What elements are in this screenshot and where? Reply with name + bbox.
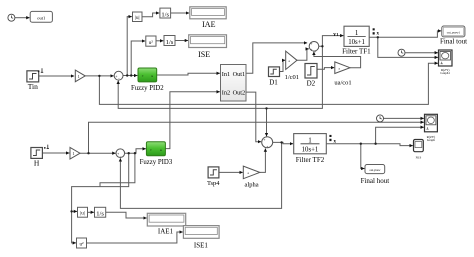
annotation x at TF1 output (373, 28, 380, 36)
svg-text:−: − (119, 155, 121, 159)
abs block |u| (133, 12, 143, 22)
svg-text:Graph1: Graph1 (440, 71, 450, 75)
svg-text:u²: u² (80, 242, 85, 248)
wire H reference to XY graph input2 (89, 122, 424, 153)
scope NS (414, 140, 424, 160)
svg-text:+: + (263, 138, 265, 142)
wire abs to integrator 1/s (142, 13, 159, 17)
node error2 tap 2 (134, 152, 136, 154)
sum S2 (262, 137, 273, 149)
svg-text:In1: In1 (222, 71, 230, 78)
svg-text:1/s: 1/s (96, 211, 104, 218)
svg-text:IAE: IAE (202, 20, 215, 29)
node error tap 2 (130, 74, 132, 76)
wire D2 to gain ua/co1 (317, 68, 334, 70)
display IAE1 (147, 213, 185, 235)
square block u^2 (146, 36, 156, 46)
svg-text:D2: D2 (307, 79, 316, 87)
integrator 1/s (160, 8, 171, 18)
gain K1 (75, 70, 85, 82)
wire integrator to display IAE (171, 12, 190, 14)
wire gain alpha to sum S2 bottom (260, 148, 266, 172)
svg-text:ISE: ISE (198, 50, 210, 59)
subsystem plant In1 Out1 / In2 Out2 (221, 65, 247, 102)
abs block |u| b (78, 207, 88, 217)
svg-text:Filter TF1: Filter TF1 (342, 48, 371, 56)
node hout junction 2 (374, 143, 376, 145)
wire Filter TF1 to Final tout (369, 31, 441, 37)
svg-text:1/s: 1/s (166, 39, 174, 46)
svg-text:10s+1: 10s+1 (348, 39, 365, 46)
svg-text:Out1: Out1 (233, 71, 246, 78)
gain K2 (70, 147, 80, 159)
wire TF1 branch to scope1 input2 (378, 37, 438, 57)
gain ua/co1 (334, 62, 351, 87)
wire gain ua/co1 to sum S3 bottom (314, 52, 361, 68)
svg-text:1/c01: 1/c01 (285, 74, 299, 81)
svg-text:10s+1: 10s+1 (302, 147, 319, 154)
sum S1 (114, 71, 123, 81)
gain alpha (243, 166, 259, 188)
wire Filter TF2 to scope2 (326, 144, 413, 146)
node Y1 junction (321, 45, 323, 47)
sum S3 (309, 42, 319, 54)
svg-text:In2: In2 (222, 89, 230, 96)
wire branch down to Final hout (361, 144, 365, 169)
wire error tap to abs |u| (127, 17, 132, 76)
svg-text:Graph: Graph (427, 138, 435, 142)
svg-text:+: + (314, 49, 316, 53)
svg-text:1: 1 (73, 151, 75, 156)
node Y1 to S2 junction (265, 107, 267, 109)
scope XY Graph (425, 114, 438, 142)
svg-text:x: x (377, 32, 380, 37)
wire square b to display ISE1 (87, 232, 183, 243)
node TF1 output junction (377, 36, 379, 38)
svg-text:Out2: Out2 (233, 89, 246, 96)
node error tap 1 (126, 74, 128, 76)
svg-text:Final hout: Final hout (361, 177, 390, 185)
node S2 output junction (280, 141, 282, 143)
node ref H junction (87, 152, 89, 154)
svg-text:u²: u² (149, 40, 154, 46)
svg-text:>: > (142, 74, 144, 78)
node abs b junction (70, 210, 72, 212)
svg-text:Fuzzy PID3: Fuzzy PID3 (140, 159, 173, 166)
svg-text:Filter TF2: Filter TF2 (296, 156, 325, 164)
wire Tsp4 to gain alpha (219, 171, 243, 173)
step source Tsp4 (207, 167, 220, 187)
display ISE1 (183, 226, 219, 250)
to-workspace Final tout (440, 26, 467, 46)
to-workspace out1 (30, 11, 52, 22)
wire subsystem Out1 to sum S3 (246, 43, 307, 73)
wire H to gain K2 (42, 152, 69, 154)
svg-text:out1: out1 (37, 15, 45, 20)
wire square to integrator 1/s2 (156, 40, 163, 42)
svg-text:1: 1 (308, 136, 312, 144)
wire sum S3 to Filter TF1 (319, 36, 344, 47)
svg-text:+: + (266, 145, 268, 149)
svg-text:ua/co1: ua/co1 (334, 80, 351, 87)
svg-text:Tsp4: Tsp4 (207, 180, 220, 187)
step source Tin (27, 71, 39, 91)
wire error2 tap joining lower rail (100, 153, 135, 186)
step source D1 (269, 67, 280, 87)
step source D2 (305, 64, 317, 88)
wire Fuzzy PID3 up to subsystem In2 (165, 92, 220, 149)
wire integrator2 to display ISE (175, 40, 188, 42)
annotation marker at Tin output (38, 68, 44, 72)
transfer function Filter TF1 (342, 26, 371, 55)
svg-text:1: 1 (78, 74, 80, 79)
node error2 tap 1 (128, 152, 130, 154)
svg-text:−: − (118, 77, 120, 81)
wire error1 tap to square u2b (72, 153, 129, 243)
svg-text:N1S: N1S (416, 155, 422, 159)
clock Clock3 (377, 115, 384, 122)
sum SL (116, 149, 125, 159)
wire Y1 feedback branch to sum S2 top (266, 108, 268, 136)
display IAE (190, 7, 226, 29)
wire sum S1 to Fuzzy PID2 (123, 75, 137, 77)
scope XY Graph1 (439, 50, 453, 75)
svg-text:|u|: |u| (135, 16, 140, 21)
wire gain K1 to sum S1 (85, 75, 114, 77)
svg-text:>: > (150, 148, 152, 152)
svg-text:alpha: alpha (245, 181, 259, 188)
clock Clock2 (398, 49, 405, 56)
wire hout feedback to sum SL bottom (120, 142, 281, 208)
svg-text:H: H (34, 159, 40, 168)
svg-text:+: + (310, 48, 312, 52)
step source H (31, 148, 43, 168)
wire Tin to gain K1 (39, 75, 74, 77)
wire sum S2 to Filter TF2 (273, 142, 294, 143)
wire Fuzzy PID2 to subsystem In1 (157, 73, 220, 75)
wire gain 1/c01 to sum S3 (297, 49, 309, 60)
wire error tap to square u2 (131, 41, 145, 76)
svg-text:|u|: |u| (80, 212, 85, 217)
integrator 1/s3 (95, 207, 106, 217)
square block u2 b (77, 238, 87, 248)
annotation marker at H output (44, 145, 49, 149)
display ISE (189, 35, 227, 59)
subsystem Fuzzy PID2 (131, 68, 164, 92)
wire integrator3 to display IAE1 (106, 212, 147, 218)
svg-text:Fuzzy PID2: Fuzzy PID2 (131, 85, 164, 92)
wire sum SL to Fuzzy PID3 (125, 149, 146, 153)
wire clock2 to scope1 input1 (405, 52, 438, 54)
wire abs b to integrator 1/s3 (88, 211, 95, 213)
svg-text:Final tout: Final tout (440, 38, 467, 46)
wire clock3 to XY graph input1 (384, 117, 424, 119)
to-workspace Final hout (361, 165, 390, 185)
wire clock1 to out1 (15, 17, 30, 19)
node ref Tin junction (98, 75, 100, 77)
clock Clock1 (8, 14, 15, 21)
svg-text:1: 1 (355, 29, 359, 37)
svg-text:D1: D1 (269, 78, 278, 86)
svg-text:ISE1: ISE1 (194, 242, 209, 250)
wire junction to abs u b (72, 210, 78, 212)
wire subsystem Out2 down to sum S2 (246, 92, 261, 142)
svg-text:out_ynew1: out_ynew1 (447, 30, 461, 34)
gain 1/c01 (285, 51, 299, 81)
subsystem Fuzzy PID3 (140, 142, 173, 166)
wire Tin reference to scope1 input3 (99, 63, 438, 104)
annotation x at TF2 output (329, 135, 336, 145)
svg-text:Tin: Tin (28, 82, 38, 91)
transfer function Filter TF2 (294, 134, 327, 164)
wire Y1 feedback to sum S1 bottom (118, 46, 322, 108)
svg-text:IAE1: IAE1 (158, 227, 174, 235)
wire branch up to XY graph input3 (376, 127, 424, 144)
wire D1 to gain 1/c01 (280, 60, 286, 71)
svg-text:out.ynew: out.ynew (369, 168, 381, 172)
svg-text:1/s: 1/s (161, 11, 169, 18)
node hout junction 1 (360, 143, 362, 145)
svg-text:+: + (310, 42, 312, 46)
integrator 1/s2 (164, 36, 175, 46)
svg-text:Y1: Y1 (333, 32, 339, 37)
wire gain K2 to sum SL (80, 152, 116, 154)
